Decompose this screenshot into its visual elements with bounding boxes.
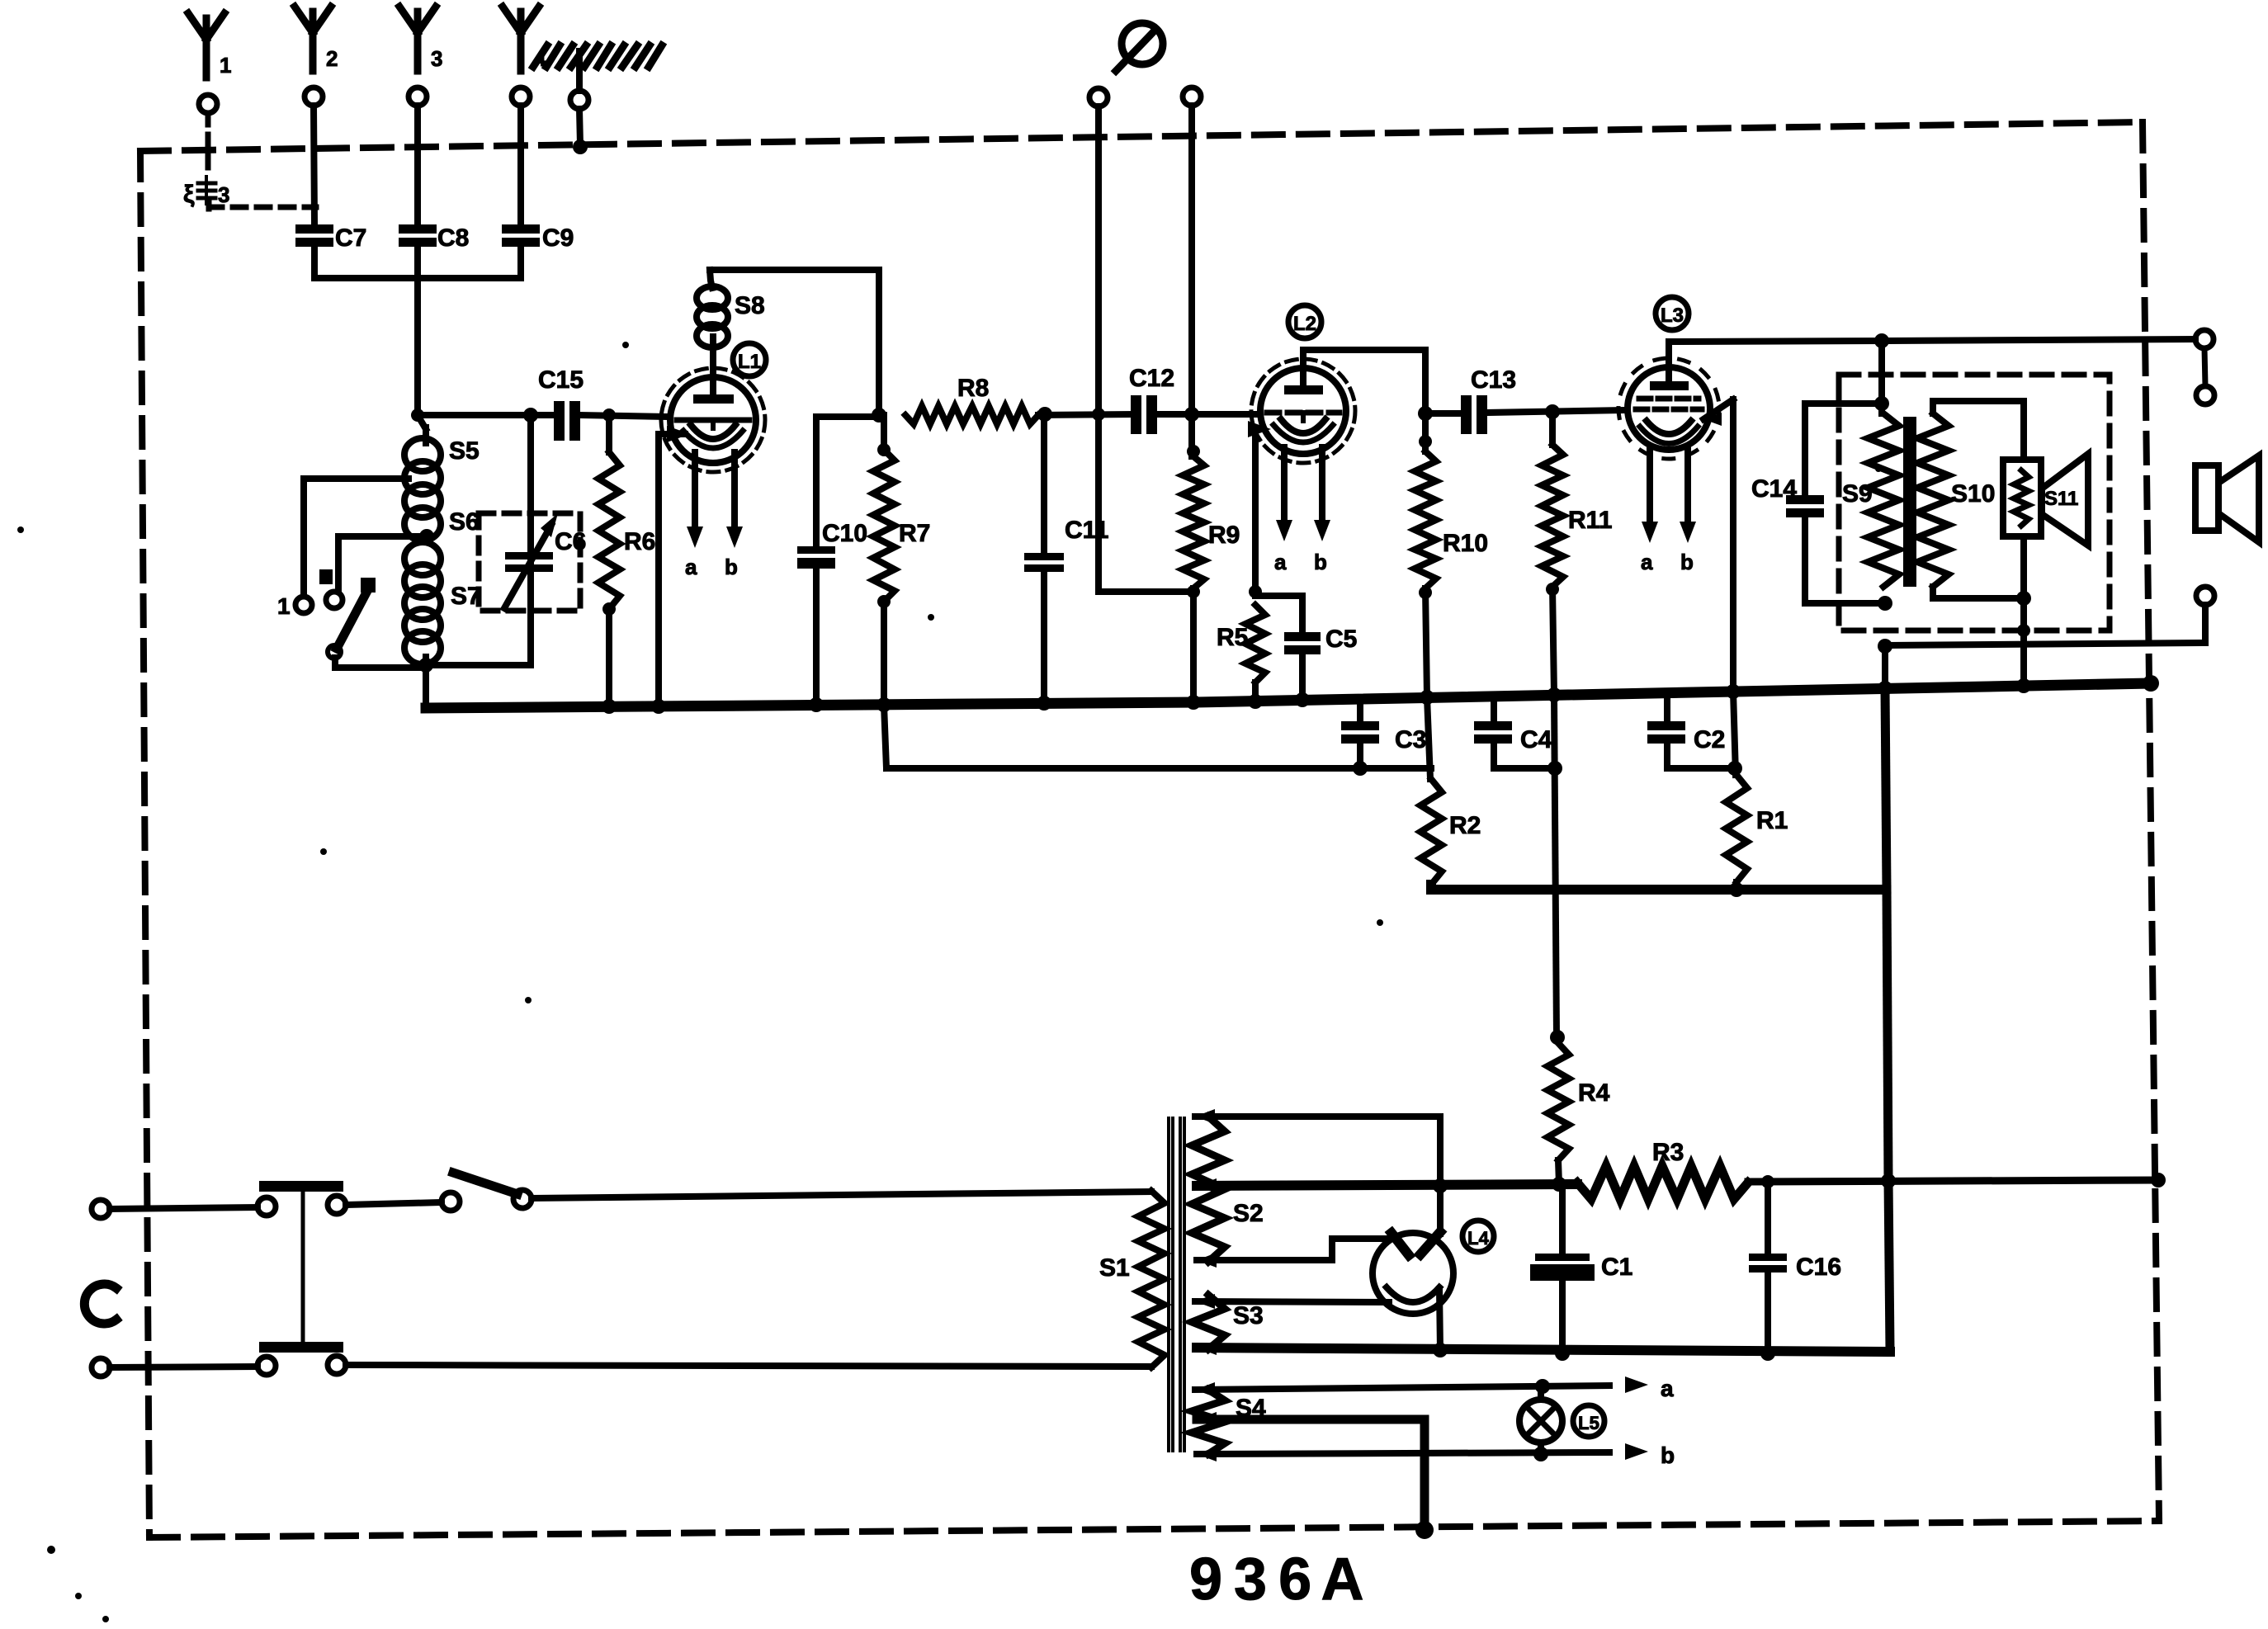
wire B+ right vertical xyxy=(1887,890,1890,1350)
svg-text:C12: C12 xyxy=(1129,365,1174,392)
dashed enclosure border (left) xyxy=(140,151,149,1537)
tap S3 top xyxy=(1195,1294,1389,1309)
label L5 xyxy=(1573,1405,1604,1437)
svg-text:a: a xyxy=(1661,1376,1674,1401)
junction plate-line xyxy=(1874,333,1889,348)
wire V3 cathode xyxy=(1703,399,1733,692)
wire switch to bus xyxy=(335,658,423,668)
arrow lead a xyxy=(1625,1376,1674,1401)
svg-text:C5: C5 xyxy=(1325,626,1357,653)
wire B+ down to S9 xyxy=(1874,341,1889,413)
winding S10 xyxy=(1917,413,1995,587)
meter terminal left xyxy=(1089,88,1108,106)
winding S4 xyxy=(1192,1390,1266,1454)
junction R4 bottom xyxy=(1552,1177,1566,1192)
svg-text:L5: L5 xyxy=(1578,1413,1599,1433)
switch blade xyxy=(328,578,376,659)
svg-text:C10: C10 xyxy=(822,520,867,547)
svg-text:L4: L4 xyxy=(1467,1228,1489,1249)
svg-text:S1: S1 xyxy=(1099,1254,1130,1282)
antenna A1 xyxy=(188,13,231,113)
ground terminal xyxy=(533,45,662,109)
symbol epsilon-3 (A1 coupling) xyxy=(183,177,229,208)
wire AC top xyxy=(110,1207,258,1209)
junction C11 bus xyxy=(1037,696,1051,711)
capacitor C10 xyxy=(797,417,867,705)
tap S2 bottom xyxy=(1197,1239,1387,1268)
capacitor C15 xyxy=(538,366,584,441)
wire C9 to join xyxy=(517,243,524,278)
svg-text:3: 3 xyxy=(431,46,442,71)
svg-text:b: b xyxy=(1314,550,1327,574)
meter terminal right xyxy=(1183,87,1201,106)
wire B+ main vertical xyxy=(1882,646,1888,688)
svg-text:S8: S8 xyxy=(735,292,765,319)
capacitor C1 xyxy=(1530,1184,1632,1361)
rectifier tube V4 xyxy=(1373,1232,1453,1314)
AC switch contact left xyxy=(442,1192,460,1211)
svg-text:a: a xyxy=(685,555,697,579)
resistor R1 xyxy=(1726,692,1788,897)
junction C10 bus xyxy=(809,697,824,712)
label V2 xyxy=(1288,305,1321,338)
svg-text:C3: C3 xyxy=(1395,726,1426,753)
wire V2 plate top xyxy=(1303,350,1425,413)
wire AC bottom xyxy=(110,1367,258,1367)
terminal pickup mid xyxy=(2196,386,2214,404)
resistor R9 xyxy=(1183,445,1240,702)
dashed wire antenna A1 xyxy=(208,113,316,209)
tube V1 (RF) xyxy=(661,337,765,472)
junction S11 bus xyxy=(2016,678,2031,693)
svg-text:a: a xyxy=(1641,550,1653,574)
junction V1 cathode bus xyxy=(651,699,666,714)
svg-text:C9: C9 xyxy=(542,224,574,252)
svg-text:C11: C11 xyxy=(1065,517,1108,544)
winding S9 xyxy=(1842,413,1899,587)
svg-text:C16: C16 xyxy=(1796,1254,1841,1281)
svg-text:b: b xyxy=(1680,550,1694,574)
wire R11 to R4 xyxy=(1550,695,1565,1045)
loudspeaker xyxy=(2195,456,2259,542)
resistor R4 xyxy=(1547,1043,1610,1184)
resistor R8 xyxy=(905,375,1038,424)
svg-text:9 3 6 A: 9 3 6 A xyxy=(1189,1546,1363,1612)
wire to switch xyxy=(346,1202,442,1205)
svg-text:b: b xyxy=(725,555,738,579)
wire node to C15 xyxy=(418,412,555,418)
wire R8 to C12 xyxy=(1037,407,1132,422)
AC terminal top-3 xyxy=(328,1196,346,1214)
wire rectifier cathode right xyxy=(1433,1289,1448,1357)
svg-text:2: 2 xyxy=(326,46,338,71)
main bus (chassis line) xyxy=(426,683,2151,708)
wire A4 down xyxy=(517,106,524,224)
wire antenna join xyxy=(314,275,521,281)
label L1 xyxy=(733,343,766,376)
meter wire left xyxy=(1092,106,1191,592)
bus end dot xyxy=(2143,675,2159,692)
junction S9-out xyxy=(1878,639,1892,654)
svg-text:R9: R9 xyxy=(1208,522,1240,549)
speaker horn small xyxy=(2042,454,2088,545)
variable capacitor C6 xyxy=(504,408,586,665)
AC symbol xyxy=(84,1284,116,1324)
antenna A2 xyxy=(295,7,338,106)
svg-text:S10: S10 xyxy=(1951,480,1995,508)
winding S3 xyxy=(1192,1295,1264,1349)
svg-text:R11: R11 xyxy=(1568,507,1612,534)
svg-text:C13: C13 xyxy=(1471,366,1516,394)
dashed box output xyxy=(1839,375,2110,630)
wire tap2 left xyxy=(338,536,426,591)
winding S1 (primary) xyxy=(1099,1191,1165,1367)
AC terminal top-2 xyxy=(258,1197,276,1216)
dashed enclosure border (bottom) xyxy=(149,1521,2159,1537)
wire V2 cathode xyxy=(1248,421,1271,596)
tube V3 filament a xyxy=(1641,447,1658,574)
svg-text:R1: R1 xyxy=(1756,807,1788,834)
svg-text:S3: S3 xyxy=(1233,1302,1264,1329)
svg-text:L2: L2 xyxy=(1293,313,1316,335)
junction V3 cathode bus xyxy=(1726,684,1741,699)
coil S7 xyxy=(404,542,481,664)
junction R9 bus xyxy=(1186,695,1201,710)
title 936A xyxy=(1189,1546,1363,1612)
junction R7 bus xyxy=(876,697,891,712)
capacitor C11 xyxy=(1024,414,1108,703)
label V3 xyxy=(1656,297,1689,330)
capacitor C2 xyxy=(1647,693,1742,776)
resistor R3 xyxy=(1577,1139,1748,1199)
pilot lamp xyxy=(1519,1386,1562,1454)
svg-text:C8: C8 xyxy=(437,224,469,252)
svg-text:C4: C4 xyxy=(1520,726,1552,753)
wire coil bottom to C6 xyxy=(426,662,531,668)
coil S8 xyxy=(697,270,765,347)
capacitor C8 xyxy=(399,224,469,252)
wire S10 top to S11 xyxy=(1933,401,2024,460)
AC switch blade xyxy=(453,1173,517,1194)
voltage selector bottom bar xyxy=(259,1342,343,1353)
resistor R11 xyxy=(1542,412,1612,695)
wire A3 down xyxy=(414,106,421,224)
wire R10 to R2 xyxy=(1427,697,1430,779)
capacitor C9 xyxy=(502,224,574,252)
svg-text:R3: R3 xyxy=(1652,1139,1684,1166)
terminal output bottom xyxy=(2196,587,2214,605)
junction S9 bottom xyxy=(1878,596,1892,611)
dashed enclosure border (right) xyxy=(2143,122,2159,1521)
resistor R7 xyxy=(873,415,930,705)
tap S2 top xyxy=(1195,1109,1440,1186)
capacitor C16 xyxy=(1749,1175,1841,1361)
wire ground to border xyxy=(573,109,588,154)
capacitor C12 xyxy=(1129,365,1174,434)
antenna A4 xyxy=(503,7,546,106)
tap S4 bottom (lamp b) xyxy=(1197,1447,1609,1461)
svg-text:R2: R2 xyxy=(1449,812,1481,839)
tube V3 filament b xyxy=(1680,447,1696,574)
wire C15 to tube V1 grid xyxy=(579,408,670,422)
bias bold line R2-R1 xyxy=(1431,885,1885,890)
junction R10 bus xyxy=(1420,690,1434,705)
resistor R10 xyxy=(1415,413,1488,697)
tube V3 (output) xyxy=(1618,342,1719,459)
label V4 xyxy=(1462,1221,1494,1252)
svg-text:C14: C14 xyxy=(1751,475,1797,503)
svg-text:R4: R4 xyxy=(1578,1079,1610,1107)
resistor R6 xyxy=(598,415,655,706)
junction R6 bus xyxy=(602,699,617,714)
tap dot coil xyxy=(419,529,434,544)
tube V1 filament b xyxy=(725,452,743,579)
wire S10 bottom xyxy=(1933,536,2031,606)
junction B+ bus xyxy=(1878,681,1892,696)
wire AC top to S1 xyxy=(532,1192,1151,1198)
wire C13 to V3 grid xyxy=(1486,404,1628,419)
wire plate line to terminals xyxy=(1882,339,2195,341)
wire node to C13 xyxy=(1425,410,1462,417)
tuning meter xyxy=(1116,23,1163,71)
AC terminal bot-1 xyxy=(92,1358,110,1376)
capacitor C4 xyxy=(1474,696,1562,776)
wire anode right feed xyxy=(1437,1186,1443,1234)
svg-text:C15: C15 xyxy=(538,366,584,394)
svg-text:R5: R5 xyxy=(1217,624,1248,651)
tube V2 filament a xyxy=(1274,447,1292,574)
svg-text:R8: R8 xyxy=(957,375,989,402)
tube V1 filament a xyxy=(685,452,703,579)
svg-text:a: a xyxy=(1274,550,1287,574)
wire V1 plate top xyxy=(710,270,879,415)
svg-text:S5: S5 xyxy=(449,437,480,465)
wire AC bottom to S1 xyxy=(346,1365,1151,1367)
AC terminal bot-3 xyxy=(328,1356,346,1374)
tap S3 bottom (B+ out) xyxy=(1197,1340,1890,1355)
terminal 1 left xyxy=(277,593,312,619)
transformer core xyxy=(1903,417,1916,587)
wire S11 node to bus xyxy=(2017,598,2030,686)
svg-text:S11: S11 xyxy=(2044,488,2078,510)
winding S2 xyxy=(1192,1117,1264,1262)
svg-text:L3: L3 xyxy=(1661,305,1684,327)
capacitor C7 xyxy=(295,224,366,252)
capacitor C13 xyxy=(1461,366,1516,434)
svg-text:S9: S9 xyxy=(1842,480,1873,508)
voltage selector top bar xyxy=(259,1181,343,1342)
junction V2 plate node xyxy=(1418,406,1433,421)
terminal pickup top xyxy=(2195,330,2214,386)
svg-text:3: 3 xyxy=(218,182,229,207)
tube V2 (detector) xyxy=(1251,350,1355,463)
tube V1 cathode wire xyxy=(659,426,690,706)
terminal 2 pad xyxy=(319,569,343,608)
svg-text:S6: S6 xyxy=(449,508,480,536)
svg-text:R10: R10 xyxy=(1443,530,1488,557)
svg-text:ξ: ξ xyxy=(183,181,195,208)
junction R5 bus xyxy=(1248,694,1263,709)
svg-text:R6: R6 xyxy=(624,528,655,555)
capacitor C3 xyxy=(1341,699,1426,776)
svg-text:1: 1 xyxy=(277,593,291,619)
svg-text:b: b xyxy=(1661,1442,1675,1468)
wire C12 to V2 grid xyxy=(1155,411,1260,418)
junction C5 bus xyxy=(1295,692,1310,707)
resistor R2 xyxy=(1420,779,1481,885)
dashed enclosure border (top) xyxy=(140,122,2143,151)
transformer core lines xyxy=(1169,1118,1184,1451)
svg-text:C7: C7 xyxy=(335,224,366,252)
wire antenna feed down xyxy=(411,278,424,422)
resistor R5 xyxy=(1217,585,1265,701)
svg-text:1: 1 xyxy=(220,53,231,78)
junction R11 bus xyxy=(1547,687,1562,702)
junction plate node xyxy=(872,408,886,423)
tap S2 center (HT line) xyxy=(1197,1178,1577,1193)
tap S4 top (lamp a) xyxy=(1195,1379,1609,1397)
svg-text:C1: C1 xyxy=(1601,1254,1632,1281)
wire coil bottom xyxy=(418,657,433,706)
wire V3 plate top xyxy=(1669,341,1882,342)
AC switch contact right xyxy=(513,1190,532,1208)
capacitor C5 xyxy=(1255,596,1357,700)
meter wire right xyxy=(1184,106,1199,456)
scan specks xyxy=(17,342,1882,1622)
wire R3 right to border xyxy=(1748,1173,2166,1188)
bias line xyxy=(886,765,1431,772)
wire C7 to join xyxy=(311,243,318,278)
antenna A3 xyxy=(399,7,442,106)
wire A2 down xyxy=(314,106,314,224)
wire C8 to join xyxy=(414,243,421,278)
coil S5/S6 xyxy=(404,415,480,541)
tube V2 filament b xyxy=(1314,447,1330,574)
wire node to C10 xyxy=(816,413,879,420)
svg-text:S2: S2 xyxy=(1233,1200,1264,1227)
AC terminal bot-2 xyxy=(258,1357,276,1375)
AC terminal top-1 xyxy=(92,1200,110,1218)
svg-text:C2: C2 xyxy=(1694,726,1725,753)
svg-text:L1: L1 xyxy=(738,351,761,373)
wire tap1 left xyxy=(304,479,409,596)
svg-text:R7: R7 xyxy=(899,520,930,547)
dashed box C6 xyxy=(479,513,580,611)
wire R7 to bias line xyxy=(884,705,886,768)
arrow lead b xyxy=(1625,1442,1675,1468)
capacitor C14 xyxy=(1751,404,1885,603)
wire B+ below bus xyxy=(1885,688,1887,890)
tap S4 mid (chassis) xyxy=(1197,1412,1434,1539)
wire terminal to S9 bottom xyxy=(1885,605,2205,645)
speaker coil S11 xyxy=(2003,460,2078,536)
